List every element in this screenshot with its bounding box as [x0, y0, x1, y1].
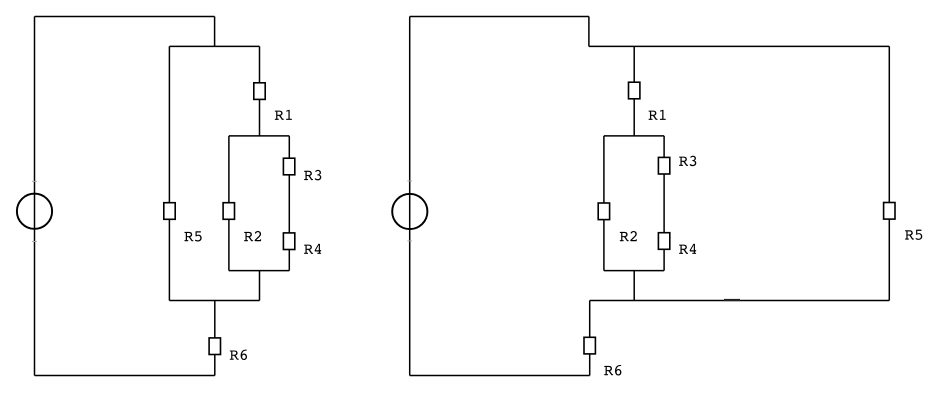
wire R6 branch: [214, 301, 216, 376]
wire inner-box bottom: [229, 270, 289, 272]
wire left vertical from source: [34, 17, 36, 376]
wire inner-box right R3 R4 branch: [288, 136, 290, 271]
wire inner-box to lower bus: [633, 271, 635, 301]
wire inner-box bottom: [604, 270, 664, 272]
wire top drop: [588, 17, 590, 47]
source V2 pin tick bottom: [407, 240, 412, 242]
wire R1 branch: [259, 46, 261, 135]
wire top drop: [214, 17, 216, 47]
source V1 pin tick bottom: [32, 241, 37, 243]
resistor R4: [658, 233, 669, 250]
label R1: [275, 110, 292, 120]
label R2: [244, 231, 261, 241]
label R3: [304, 170, 321, 180]
wire middle-rect left R5 branch: [168, 46, 170, 300]
wire inner-box top: [229, 135, 289, 137]
wire overlap mark on lower bus: [724, 299, 740, 301]
wire right vertical R5 branch: [888, 46, 890, 300]
wire R6 branch: [589, 301, 591, 376]
wire bottom: [35, 375, 215, 377]
resistor R6: [209, 338, 220, 355]
label R4: [304, 244, 321, 254]
wire middle-rect bottom: [169, 300, 259, 302]
wire R1 branch: [633, 46, 635, 135]
label R2: [620, 231, 637, 241]
wire inner-box left R2 branch: [228, 136, 230, 271]
wire inner-box right R3 R4 branch: [663, 136, 665, 271]
resistor R2: [223, 203, 234, 220]
resistor R1: [254, 83, 265, 100]
label R6: [230, 350, 247, 360]
source V1 pin tick top: [32, 180, 37, 182]
resistor R6: [584, 337, 595, 354]
wire lower bus: [590, 300, 890, 302]
wire middle-rect top: [169, 45, 259, 47]
wire upper bus: [589, 45, 889, 47]
resistor R2: [598, 203, 609, 220]
label R4: [679, 244, 696, 254]
wire left vertical from source: [409, 17, 411, 376]
wire top: [35, 16, 215, 18]
label R5: [184, 231, 201, 241]
wire top: [410, 16, 589, 18]
label R5: [905, 230, 922, 240]
resistor R5: [884, 203, 895, 220]
wire inner-box top: [604, 135, 664, 137]
resistor R3: [658, 157, 669, 174]
resistor R4: [283, 233, 294, 250]
wire bottom: [410, 375, 590, 377]
source V2 pin tick top: [407, 180, 412, 182]
wire inner-box left R2 branch: [603, 136, 605, 271]
source V2 circle: [392, 194, 427, 229]
resistor R5: [164, 203, 175, 220]
resistor R3: [283, 158, 294, 175]
resistor R1: [629, 82, 640, 99]
wire inner-box to middle-rect bottom: [259, 271, 261, 301]
label R6: [604, 365, 621, 375]
label R3: [679, 156, 696, 166]
label R1: [649, 110, 666, 120]
source V1 circle: [17, 194, 52, 229]
